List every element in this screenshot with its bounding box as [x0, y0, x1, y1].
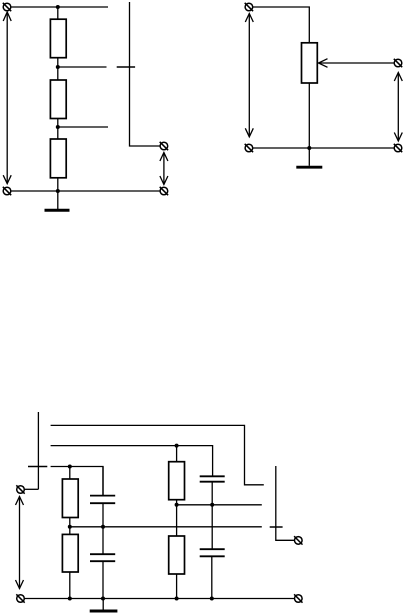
resistor R3: [50, 139, 66, 178]
node R4 R6 junction: [68, 525, 72, 529]
wire output pick-off line: [130, 2, 161, 146]
terminal X7 (pot bottom left): [245, 144, 253, 152]
wire ground stub (attenuator): [102, 599, 104, 611]
wire X5 to pot top: [253, 7, 310, 43]
resistor R6: [62, 534, 78, 572]
terminal X4 (bottom left): [3, 187, 11, 195]
wire ground stub (pot): [308, 148, 310, 166]
node top junction: [56, 5, 60, 9]
wire bottom bus: [11, 190, 161, 192]
terminal X6 (wiper out): [394, 59, 402, 67]
terminal X9 (input): [16, 485, 24, 493]
wire input riser: [37, 412, 39, 489]
contact bar on input riser: [28, 466, 47, 468]
node R7 bottom: [175, 597, 179, 601]
terminal X12 (bottom left): [16, 594, 24, 602]
voltage arrow U5 (attenuator input, double headed): [16, 497, 24, 589]
wire X9 to riser: [24, 488, 38, 490]
resistor R4: [62, 479, 78, 518]
wire lead to R1: [57, 7, 59, 19]
wire R6 to bottom bus: [69, 572, 71, 599]
wire R1 to R2: [57, 58, 59, 80]
wire tap 2: [58, 126, 108, 128]
capacitor C3: [200, 476, 225, 505]
wire lead to R4: [69, 467, 71, 480]
ground (top-left circuit): [45, 209, 70, 212]
wire node line (second divider tap): [177, 504, 262, 506]
wire tap line 1 (top): [51, 425, 264, 484]
ground (attenuator): [90, 610, 118, 613]
voltage arrow U4 (pot output, double headed): [394, 73, 402, 142]
wire ground stub: [57, 191, 59, 210]
capacitor C4: [200, 505, 225, 599]
wire pot bottom to bus: [308, 83, 310, 148]
node C3 bottom junction: [210, 503, 214, 507]
node line2 to R5: [175, 444, 179, 448]
wire input tap line: [51, 467, 103, 496]
terminal X5 (pot input top): [245, 3, 253, 11]
capacitor C2: [90, 527, 115, 599]
terminal X2 (output top): [160, 142, 168, 150]
wire tap line 2: [51, 446, 213, 477]
ground (pot circuit): [296, 166, 322, 169]
capacitor C1: [90, 467, 115, 527]
wiper arrow of P1: [319, 59, 395, 68]
node pot bottom junction: [307, 146, 311, 150]
wire bottom bus (pot circuit): [253, 147, 395, 149]
wire R2 to R3: [57, 119, 59, 140]
wire bottom bus (attenuator): [24, 598, 295, 600]
wire lead line2 to R5: [176, 446, 178, 462]
contact bar on output riser: [270, 526, 283, 528]
resistor R1: [50, 19, 66, 58]
wire lead mid line to R6: [69, 527, 71, 535]
resistor R2: [50, 80, 66, 119]
terminal X1 (input top left): [3, 3, 11, 11]
potentiometer P1: [302, 43, 318, 83]
node tap 1: [56, 65, 60, 69]
wire R5 to node line: [176, 500, 178, 505]
node C1 C2 junction: [101, 525, 105, 529]
wire top bus from X1: [11, 6, 108, 8]
wire tap 1: [58, 66, 107, 68]
wire R4 to mid line: [69, 518, 71, 527]
voltage arrow U3 (pot input, double headed): [245, 14, 253, 137]
node tap 2: [56, 125, 60, 129]
wire R3 to bottom bus: [57, 178, 59, 191]
resistor R7: [169, 536, 185, 574]
node C4 bottom: [210, 597, 214, 601]
voltage arrow U2 (right, double headed): [160, 153, 168, 185]
wire lead to R7: [176, 505, 178, 536]
terminal X10 (output mid): [294, 536, 302, 544]
node bottom junction: [56, 189, 60, 193]
wire mid tap line: [70, 526, 262, 528]
wire output riser to X10: [276, 466, 295, 540]
terminal X3 (output bottom): [160, 187, 168, 195]
node R6 bottom: [68, 597, 72, 601]
terminal X11 (bottom right): [294, 594, 302, 602]
node C2 bottom: [101, 597, 105, 601]
contact bar on tap 1: [117, 66, 135, 68]
resistor R5: [169, 462, 185, 500]
wire R7 to bottom bus: [176, 574, 178, 599]
voltage arrow U1 (left, double headed): [3, 12, 11, 184]
node input tap to R4: [68, 465, 72, 469]
node R5 R7 junction: [175, 503, 179, 507]
terminal X8 (pot bottom right): [394, 144, 402, 152]
